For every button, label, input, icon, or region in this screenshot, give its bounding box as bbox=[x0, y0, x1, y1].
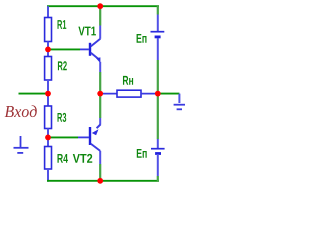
resistor Rн (load) bbox=[117, 90, 141, 97]
wire: output node down to VT2 emitter bbox=[99, 94, 101, 118]
label R3 bbox=[58, 113, 67, 122]
wire: VT1 base lead bbox=[80, 48, 89, 50]
label Eп (lower) bbox=[137, 149, 147, 158]
node C: R3-R4-VT2 base junction bbox=[45, 135, 51, 141]
wire: right rail top segment bbox=[157, 5, 159, 14]
wire: battery GB1 top lead bbox=[157, 15, 159, 32]
label R1 bbox=[58, 20, 67, 29]
wire: Rн left lead bbox=[100, 93, 117, 95]
label VT2 bbox=[73, 154, 92, 163]
VT1 base bar bbox=[89, 43, 91, 56]
VT2 emitter vertical lead bbox=[99, 118, 101, 125]
wire: R2 top lead bbox=[47, 49, 49, 56]
VT1 emitter diagonal bbox=[91, 53, 99, 59]
wire: R3 top lead bbox=[47, 94, 49, 106]
wire: right rail mid segment bbox=[157, 60, 159, 94]
wire: VT1 base wire from node A bbox=[48, 48, 80, 50]
label R2 bbox=[58, 61, 67, 70]
node G: right-rail junction (Rн and ground branch) bbox=[155, 91, 161, 97]
node E: output node (emitters and Rн) bbox=[97, 91, 103, 97]
VT2 collector diagonal bbox=[91, 144, 100, 151]
VT1 emitter arrowhead bbox=[96, 57, 100, 62]
wire: ground branch vertical stub bbox=[178, 94, 180, 103]
VT1 collector vertical lead bbox=[99, 26, 101, 39]
wire: bottom rail bbox=[47, 180, 159, 182]
wire: top supply rail bbox=[47, 5, 159, 7]
wire: VT2 collector to bottom rail bbox=[99, 164, 101, 182]
wire: battery GB1 bottom lead bbox=[157, 38, 159, 60]
wire: VT1 collector to top rail bbox=[99, 5, 101, 25]
resistor R4 bbox=[45, 147, 52, 170]
resistor R1 bbox=[45, 18, 52, 42]
node A: R1-R2-VT1 base junction bbox=[45, 47, 51, 53]
VT1 collector diagonal bbox=[91, 39, 101, 47]
VT2 base bar bbox=[89, 127, 91, 145]
wire: input wire bbox=[19, 93, 49, 95]
wire: ground branch horizontal bbox=[158, 93, 180, 95]
VT1 emitter vertical lead bbox=[99, 62, 101, 72]
resistor R2 bbox=[45, 57, 52, 81]
transistor VT1 (NPN) bbox=[90, 26, 100, 73]
ground: input ground symbol bbox=[14, 136, 29, 153]
battery Eп (lower): short negative plate bbox=[155, 152, 161, 155]
wire: right rail lower segment bbox=[157, 94, 159, 139]
wire: R3 bottom lead bbox=[47, 129, 49, 138]
label Вход (input) bbox=[5, 105, 37, 117]
wire: VT2 base lead bbox=[78, 136, 89, 138]
wire: emitter rail VT1 to output node bbox=[99, 72, 101, 94]
label VT1 bbox=[78, 27, 96, 36]
node B: input junction R2-R3 bbox=[45, 91, 51, 97]
wire: R1 bottom lead bbox=[47, 42, 49, 50]
resistor R3 bbox=[45, 106, 52, 129]
wire: R4 top lead bbox=[47, 137, 49, 146]
battery Eп (upper): long positive plate bbox=[151, 31, 165, 33]
transistor VT2 (PNP) bbox=[90, 118, 101, 164]
wire: VT2 base wire from node C bbox=[48, 136, 78, 138]
battery Eп (upper): short negative plate bbox=[155, 36, 161, 39]
ground: right ground symbol bbox=[174, 105, 185, 110]
label Eп (upper) bbox=[137, 34, 147, 43]
wire: right rail bottom corner bbox=[157, 176, 159, 182]
VT2 collector vertical lead bbox=[99, 151, 101, 164]
VT2 emitter diagonal bbox=[97, 124, 101, 128]
node D: collector/top-rail junction bbox=[97, 3, 103, 9]
VT2 emitter arrowhead (points into base, PNP) bbox=[92, 129, 99, 135]
node F: collector/bottom-rail junction bbox=[97, 178, 103, 184]
wire: Rн right lead bbox=[141, 93, 158, 95]
wire: R1 top lead bbox=[47, 6, 49, 17]
wire: battery GB2 bottom lead bbox=[157, 154, 159, 176]
wire: R4 bottom lead bbox=[47, 169, 49, 182]
label Rн bbox=[123, 76, 133, 85]
wire: R2 bottom lead bbox=[47, 80, 49, 94]
wire: battery GB2 top lead bbox=[157, 139, 159, 149]
label R4 bbox=[57, 154, 67, 163]
battery Eп (lower): long positive plate bbox=[151, 148, 165, 150]
